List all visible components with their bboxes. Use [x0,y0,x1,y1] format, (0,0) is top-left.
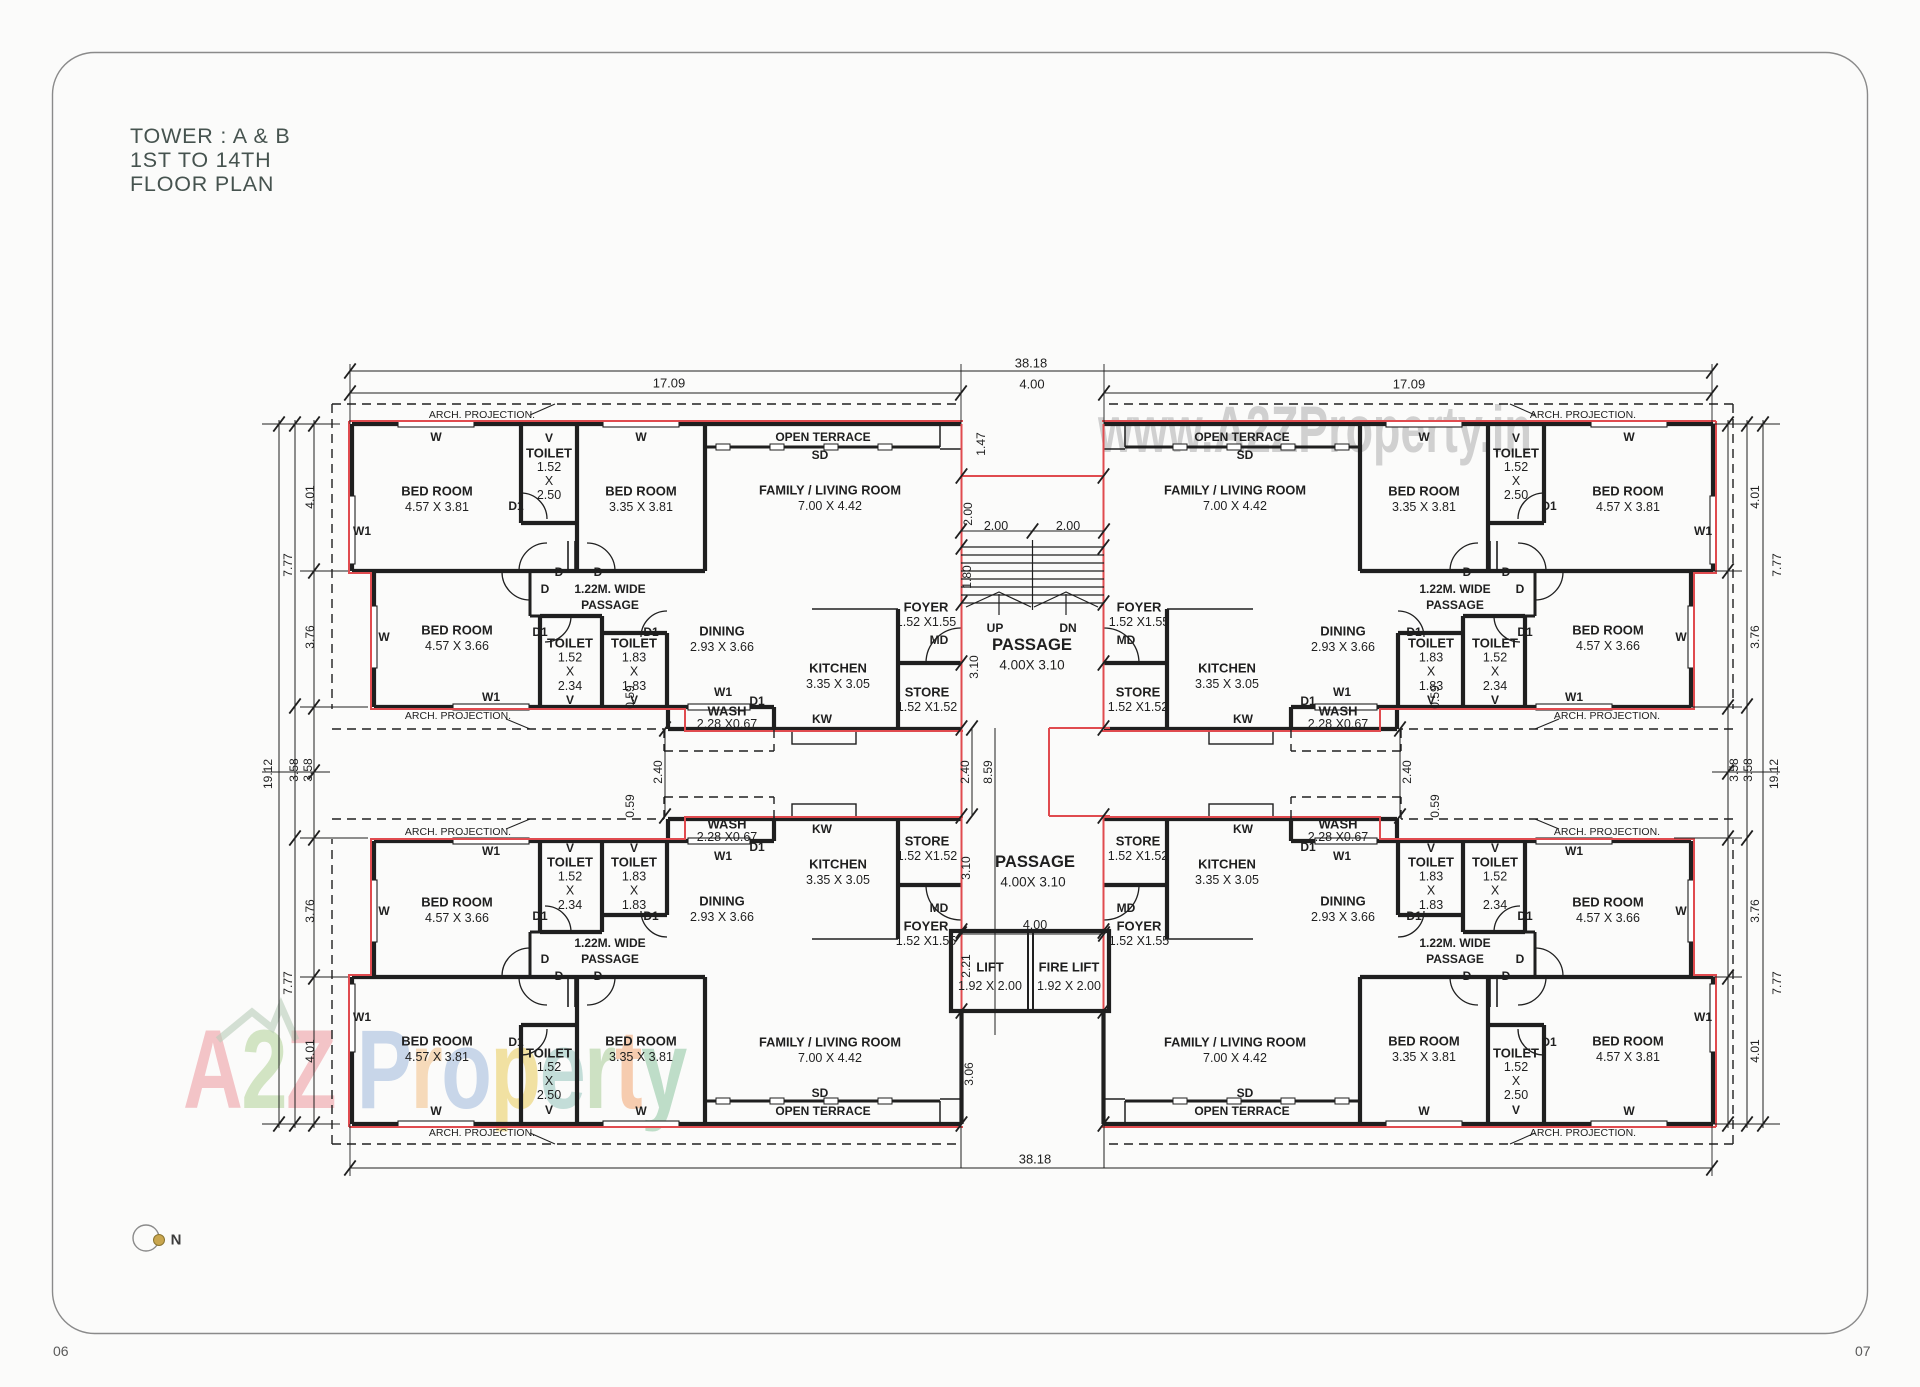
svg-text:KITCHEN: KITCHEN [809,661,867,676]
svg-text:1.22M. WIDE: 1.22M. WIDE [574,582,645,596]
svg-text:7.77: 7.77 [281,553,295,577]
svg-text:W1: W1 [1565,844,1583,858]
svg-text:BED ROOM: BED ROOM [1572,623,1644,638]
svg-text:0.59: 0.59 [1428,794,1442,818]
svg-text:V: V [630,841,638,855]
svg-text:D1: D1 [1517,625,1533,639]
svg-text:1.52: 1.52 [537,460,561,474]
svg-text:2.28 X0.67: 2.28 X0.67 [697,717,758,731]
svg-text:D: D [1463,565,1472,579]
svg-text:ARCH. PROJECTION.: ARCH. PROJECTION. [1554,826,1660,838]
svg-text:BED ROOM: BED ROOM [1388,484,1460,499]
svg-text:19.12: 19.12 [261,759,275,789]
svg-text:1.83: 1.83 [1419,898,1443,912]
svg-text:1.83: 1.83 [622,898,646,912]
svg-text:2.40: 2.40 [958,760,972,784]
svg-text:MD: MD [930,633,949,647]
svg-text:W1: W1 [1565,690,1583,704]
svg-text:DN: DN [1059,621,1076,635]
central core [623,424,1442,1168]
svg-text:D: D [541,952,550,966]
svg-text:2.00: 2.00 [1056,519,1080,533]
svg-text:2.28 X0.67: 2.28 X0.67 [1308,830,1369,844]
svg-text:D: D [1502,565,1511,579]
svg-text:W1: W1 [353,1010,371,1024]
svg-text:4.57 X 3.66: 4.57 X 3.66 [425,911,489,925]
svg-text:1.83: 1.83 [622,650,646,664]
svg-text:BED ROOM: BED ROOM [1572,895,1644,910]
svg-text:38.18: 38.18 [1019,1152,1052,1167]
svg-text:17.09: 17.09 [1393,377,1426,392]
svg-text:1.52: 1.52 [537,1060,561,1074]
svg-text:D: D [1516,582,1525,596]
svg-text:DINING: DINING [1320,894,1366,909]
svg-text:BED ROOM: BED ROOM [1592,484,1664,499]
svg-text:2.50: 2.50 [537,1088,561,1102]
svg-text:D1: D1 [1541,1035,1557,1049]
svg-text:KITCHEN: KITCHEN [809,857,867,872]
svg-text:D: D [1502,969,1511,983]
svg-text:PASSAGE: PASSAGE [581,952,639,966]
svg-text:STORE: STORE [1116,834,1161,849]
svg-text:FOYER: FOYER [904,600,949,615]
svg-text:3.35 X 3.05: 3.35 X 3.05 [1195,873,1259,887]
svg-text:X: X [1491,884,1500,898]
svg-text:STORE: STORE [905,685,950,700]
svg-text:BED ROOM: BED ROOM [1592,1034,1664,1049]
svg-text:D1: D1 [1517,909,1533,923]
svg-text:PASSAGE: PASSAGE [1426,952,1484,966]
svg-text:V: V [545,1103,553,1117]
svg-text:X: X [545,1074,554,1088]
svg-text:KW: KW [1233,822,1254,836]
svg-text:TOILET: TOILET [1472,636,1518,651]
svg-text:FAMILY / LIVING ROOM: FAMILY / LIVING ROOM [1164,1035,1306,1050]
svg-text:3.06: 3.06 [962,1062,976,1086]
svg-text:3.58: 3.58 [1727,758,1741,782]
apartment bottom-left [281,797,963,1144]
svg-text:TOILET: TOILET [611,636,657,651]
svg-text:1.80: 1.80 [960,565,974,589]
svg-text:V: V [566,841,574,855]
svg-text:W: W [1623,430,1635,444]
svg-text:1.52 X1.55: 1.52 X1.55 [1109,934,1170,948]
svg-text:MD: MD [1117,901,1136,915]
svg-text:4.01: 4.01 [303,485,317,509]
svg-text:FIRE LIFT: FIRE LIFT [1039,960,1100,975]
svg-text:2.21: 2.21 [959,954,973,978]
svg-text:1.52 X1.55: 1.52 X1.55 [896,615,957,629]
svg-text:ARCH. PROJECTION.: ARCH. PROJECTION. [405,826,511,838]
svg-text:1.52: 1.52 [1504,1060,1528,1074]
svg-text:3.76: 3.76 [303,625,317,649]
svg-text:TOWER : A & B: TOWER : A & B [130,124,291,148]
svg-text:TOILET: TOILET [611,855,657,870]
title block [130,124,291,196]
svg-text:1.52 X1.52: 1.52 X1.52 [897,700,958,714]
svg-text:2.50: 2.50 [1504,1088,1528,1102]
svg-text:TOILET: TOILET [1408,855,1454,870]
svg-text:D1: D1 [1541,499,1557,513]
svg-text:06: 06 [53,1343,69,1359]
svg-text:3.35 X 3.05: 3.35 X 3.05 [806,677,870,691]
svg-text:1.52: 1.52 [1483,650,1507,664]
svg-text:ARCH. PROJECTION.: ARCH. PROJECTION. [405,710,511,722]
svg-text:ARCH. PROJECTION.: ARCH. PROJECTION. [1530,409,1636,421]
svg-text:D1: D1 [1300,694,1316,708]
svg-text:W1: W1 [482,844,500,858]
svg-text:N: N [171,1232,182,1249]
svg-text:ARCH. PROJECTION.: ARCH. PROJECTION. [1554,710,1660,722]
svg-text:BED ROOM: BED ROOM [401,484,473,499]
svg-text:TOILET: TOILET [1408,636,1454,651]
svg-text:BED ROOM: BED ROOM [605,484,677,499]
svg-text:3.35 X 3.81: 3.35 X 3.81 [1392,500,1456,514]
svg-text:7.00 X 4.42: 7.00 X 4.42 [1203,499,1267,513]
svg-text:3.10: 3.10 [959,856,973,880]
svg-text:TOILET: TOILET [1472,855,1518,870]
svg-text:2.93 X 3.66: 2.93 X 3.66 [1311,910,1375,924]
svg-text:W1: W1 [1333,685,1351,699]
svg-text:FAMILY / LIVING ROOM: FAMILY / LIVING ROOM [759,483,901,498]
svg-text:1ST TO 14TH: 1ST TO 14TH [130,148,271,172]
svg-text:ARCH. PROJECTION.: ARCH. PROJECTION. [1530,1127,1636,1139]
svg-text:OPEN TERRACE: OPEN TERRACE [775,430,870,444]
svg-text:07: 07 [1855,1343,1871,1359]
svg-text:W: W [1418,430,1430,444]
svg-text:V: V [1427,841,1435,855]
svg-text:V: V [545,431,553,445]
svg-text:X: X [1427,665,1436,679]
svg-text:3.35 X 3.81: 3.35 X 3.81 [609,1050,673,1064]
svg-text:KITCHEN: KITCHEN [1198,857,1256,872]
svg-text:4.00: 4.00 [1019,377,1044,392]
svg-text:BED ROOM: BED ROOM [605,1034,677,1049]
svg-text:2.40: 2.40 [651,760,665,784]
svg-text:1.83: 1.83 [622,869,646,883]
svg-text:W1: W1 [714,849,732,863]
svg-text:X: X [545,474,554,488]
svg-text:2.00: 2.00 [961,502,975,526]
svg-text:2.93 X 3.66: 2.93 X 3.66 [690,640,754,654]
svg-text:SD: SD [1237,448,1254,462]
svg-text:PASSAGE: PASSAGE [581,598,639,612]
svg-text:7.00 X 4.42: 7.00 X 4.42 [1203,1051,1267,1065]
svg-text:0.59: 0.59 [623,685,637,709]
svg-text:OPEN TERRACE: OPEN TERRACE [1194,1104,1289,1118]
svg-text:W1: W1 [353,524,371,538]
svg-text:1.22M. WIDE: 1.22M. WIDE [574,936,645,950]
svg-text:8.59: 8.59 [981,760,995,784]
svg-text:KITCHEN: KITCHEN [1198,661,1256,676]
svg-text:2.28 X0.67: 2.28 X0.67 [1308,717,1369,731]
svg-text:1.52 X1.55: 1.52 X1.55 [1109,615,1170,629]
svg-text:DINING: DINING [699,894,745,909]
svg-text:MD: MD [1117,633,1136,647]
svg-text:2.28 X0.67: 2.28 X0.67 [697,830,758,844]
svg-text:1.83: 1.83 [1419,869,1443,883]
svg-text:1.52: 1.52 [558,869,582,883]
apartment bottom-right [1102,797,1784,1144]
svg-text:X: X [1491,665,1500,679]
svg-text:BED ROOM: BED ROOM [1388,1034,1460,1049]
svg-text:4.57 X 3.81: 4.57 X 3.81 [1596,500,1660,514]
svg-text:ARCH. PROJECTION.: ARCH. PROJECTION. [429,409,535,421]
svg-text:PASSAGE: PASSAGE [1426,598,1484,612]
svg-text:SD: SD [812,1086,829,1100]
svg-text:X: X [566,665,575,679]
svg-text:FOYER: FOYER [1117,919,1162,934]
svg-text:1.52 X1.55: 1.52 X1.55 [896,934,957,948]
svg-text:7.00 X 4.42: 7.00 X 4.42 [798,1051,862,1065]
svg-text:2.50: 2.50 [1504,488,1528,502]
svg-text:TOILET: TOILET [1493,446,1539,461]
svg-text:DINING: DINING [1320,624,1366,639]
svg-text:3.10: 3.10 [967,655,981,679]
svg-text:2.34: 2.34 [558,679,582,693]
svg-text:1.92 X 2.00: 1.92 X 2.00 [1037,979,1101,993]
svg-text:1.52: 1.52 [1483,869,1507,883]
svg-text:2.00: 2.00 [984,519,1008,533]
svg-text:STORE: STORE [905,834,950,849]
svg-text:PASSAGE: PASSAGE [992,636,1072,654]
svg-text:4.00X 3.10: 4.00X 3.10 [999,658,1064,673]
svg-text:D1: D1 [532,625,548,639]
svg-text:0.59: 0.59 [623,794,637,818]
svg-text:PASSAGE: PASSAGE [995,853,1075,871]
svg-text:FAMILY / LIVING ROOM: FAMILY / LIVING ROOM [759,1035,901,1050]
svg-text:3.76: 3.76 [303,899,317,923]
svg-text:7.77: 7.77 [281,971,295,995]
svg-text:4.57 X 3.66: 4.57 X 3.66 [425,639,489,653]
svg-text:D: D [555,969,564,983]
svg-text:DINING: DINING [699,624,745,639]
svg-text:W1: W1 [714,685,732,699]
svg-text:3.35 X 3.05: 3.35 X 3.05 [806,873,870,887]
svg-text:ARCH. PROJECTION.: ARCH. PROJECTION. [429,1127,535,1139]
svg-text:4.01: 4.01 [303,1039,317,1063]
svg-text:FOYER: FOYER [904,919,949,934]
svg-text:FOYER: FOYER [1117,600,1162,615]
svg-text:KW: KW [812,822,833,836]
svg-text:TOILET: TOILET [1493,1046,1539,1061]
svg-text:7.00 X 4.42: 7.00 X 4.42 [798,499,862,513]
apartment top-left [281,404,963,751]
svg-text:X: X [1512,474,1521,488]
svg-text:X: X [630,884,639,898]
svg-text:2.34: 2.34 [558,898,582,912]
svg-text:V: V [1512,431,1520,445]
svg-text:V: V [1491,841,1499,855]
svg-text:STORE: STORE [1116,685,1161,700]
margin dim chain [1674,416,1781,1131]
svg-text:D1: D1 [508,1035,524,1049]
svg-text:D1: D1 [508,499,524,513]
svg-text:V: V [1491,693,1499,707]
svg-text:W: W [378,630,390,644]
watermark house icon [218,1006,296,1040]
svg-text:7.77: 7.77 [1770,553,1784,577]
svg-text:TOILET: TOILET [547,636,593,651]
svg-text:UP: UP [987,621,1004,635]
svg-text:1.52 X1.52: 1.52 X1.52 [897,849,958,863]
svg-text:2.93 X 3.66: 2.93 X 3.66 [1311,640,1375,654]
svg-text:2.40: 2.40 [1400,760,1414,784]
svg-text:KW: KW [812,712,833,726]
svg-text:2.34: 2.34 [1483,679,1507,693]
outer dimensions [344,356,1717,1177]
svg-text:1.22M. WIDE: 1.22M. WIDE [1419,936,1490,950]
svg-text:D: D [555,565,564,579]
svg-text:3.76: 3.76 [1748,899,1762,923]
svg-text:7.77: 7.77 [1770,971,1784,995]
svg-text:4.01: 4.01 [1748,485,1762,509]
svg-text:3.58: 3.58 [287,758,301,782]
svg-text:W1: W1 [1694,1010,1712,1024]
svg-text:OPEN TERRACE: OPEN TERRACE [1194,430,1289,444]
svg-text:D: D [594,565,603,579]
svg-text:4.57 X 3.66: 4.57 X 3.66 [1576,639,1640,653]
svg-text:D: D [541,582,550,596]
svg-text:1.52: 1.52 [1504,460,1528,474]
svg-text:W: W [1675,904,1687,918]
svg-text:V: V [566,693,574,707]
svg-text:1.52: 1.52 [558,650,582,664]
svg-text:LIFT: LIFT [976,960,1003,975]
svg-text:W: W [635,430,647,444]
svg-text:4.57 X 3.81: 4.57 X 3.81 [405,500,469,514]
svg-text:3.35 X 3.81: 3.35 X 3.81 [609,500,673,514]
svg-text:D: D [1463,969,1472,983]
svg-text:X: X [630,665,639,679]
svg-text:W: W [1623,1104,1635,1118]
svg-text:TOILET: TOILET [547,855,593,870]
apartment top-right [1102,404,1784,751]
svg-text:V: V [1512,1103,1520,1117]
svg-text:38.18: 38.18 [1015,356,1048,371]
svg-text:3.58: 3.58 [1741,758,1755,782]
svg-text:3.76: 3.76 [1748,625,1762,649]
svg-text:4.57 X 3.81: 4.57 X 3.81 [405,1050,469,1064]
svg-text:D: D [1516,952,1525,966]
svg-text:BED ROOM: BED ROOM [401,1034,473,1049]
svg-text:1.22M. WIDE: 1.22M. WIDE [1419,582,1490,596]
svg-text:X: X [1512,1074,1521,1088]
svg-text:W: W [1675,630,1687,644]
svg-text:4.01: 4.01 [1748,1039,1762,1063]
svg-text:SD: SD [1237,1086,1254,1100]
svg-text:W: W [430,430,442,444]
svg-text:4.57 X 3.66: 4.57 X 3.66 [1576,911,1640,925]
svg-text:W1: W1 [1694,524,1712,538]
svg-text:D1: D1 [532,909,548,923]
svg-text:W: W [635,1104,647,1118]
svg-text:2.34: 2.34 [1483,898,1507,912]
svg-text:KW: KW [1233,712,1254,726]
svg-text:OPEN TERRACE: OPEN TERRACE [775,1104,870,1118]
svg-text:BED ROOM: BED ROOM [421,623,493,638]
svg-text:17.09: 17.09 [653,376,686,391]
svg-text:2.50: 2.50 [537,488,561,502]
svg-text:MD: MD [930,901,949,915]
svg-text:0.59: 0.59 [1428,685,1442,709]
svg-text:FLOOR PLAN: FLOOR PLAN [130,172,274,196]
margin dim chain [261,416,368,1131]
svg-text:3.35 X 3.05: 3.35 X 3.05 [1195,677,1259,691]
svg-text:D: D [594,969,603,983]
svg-text:FAMILY / LIVING ROOM: FAMILY / LIVING ROOM [1164,483,1306,498]
svg-text:3.35 X 3.81: 3.35 X 3.81 [1392,1050,1456,1064]
svg-text:SD: SD [812,448,829,462]
svg-text:4.00X 3.10: 4.00X 3.10 [1000,875,1065,890]
svg-text:W: W [430,1104,442,1118]
svg-text:4.57 X 3.81: 4.57 X 3.81 [1596,1050,1660,1064]
svg-text:X: X [566,884,575,898]
svg-text:1.83: 1.83 [1419,650,1443,664]
svg-text:D1: D1 [749,694,765,708]
north symbol [133,1225,159,1251]
svg-text:W: W [1418,1104,1430,1118]
svg-text:X: X [1427,884,1436,898]
svg-text:1.52 X1.52: 1.52 X1.52 [1108,849,1169,863]
svg-text:TOILET: TOILET [526,446,572,461]
svg-text:W: W [378,904,390,918]
svg-text:BED ROOM: BED ROOM [421,895,493,910]
svg-text:W1: W1 [482,690,500,704]
svg-text:19.12: 19.12 [1767,759,1781,789]
svg-text:TOILET: TOILET [526,1046,572,1061]
svg-text:1.92 X 2.00: 1.92 X 2.00 [958,979,1022,993]
svg-text:1.52 X1.52: 1.52 X1.52 [1108,700,1169,714]
svg-text:3.58: 3.58 [301,758,315,782]
svg-text:1.47: 1.47 [974,432,988,456]
svg-text:2.93 X 3.66: 2.93 X 3.66 [690,910,754,924]
svg-text:W1: W1 [1333,849,1351,863]
